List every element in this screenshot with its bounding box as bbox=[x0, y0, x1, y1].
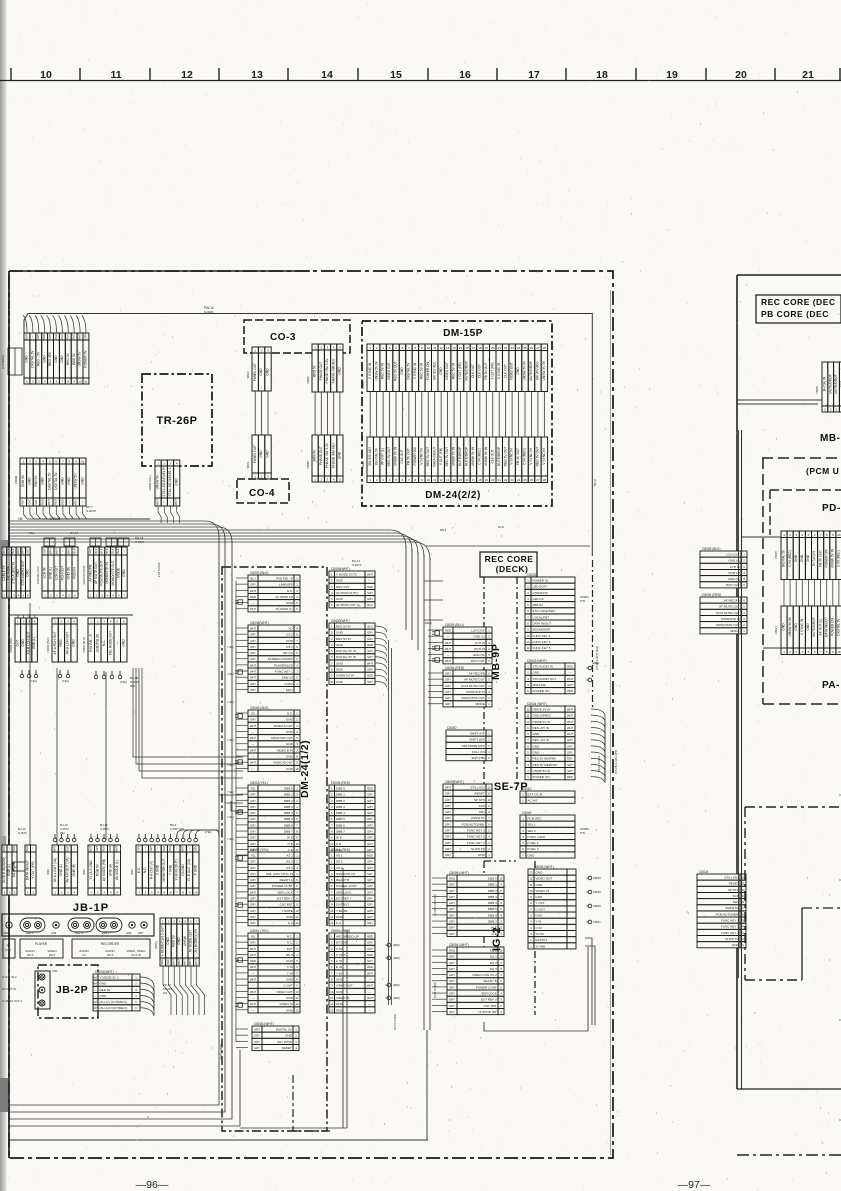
svg-text:POWER ON: POWER ON bbox=[830, 617, 834, 636]
svg-text:(YEL): (YEL) bbox=[227, 837, 234, 841]
wire risers from bus curves down bbox=[405, 546, 407, 630]
svg-text:BLK: BLK bbox=[94, 548, 98, 553]
svg-text:AV MONI 1R: AV MONI 1R bbox=[275, 595, 293, 599]
svg-text:GND: GND bbox=[286, 978, 294, 982]
svg-text:GND: GND bbox=[100, 982, 108, 986]
svg-text:STILL ADJ: STILL ADJ bbox=[724, 875, 739, 879]
svg-text:PHASE OUT: PHASE OUT bbox=[319, 446, 323, 465]
svg-text:GRY: GRY bbox=[250, 583, 256, 587]
svg-text:SEL 2: SEL 2 bbox=[528, 829, 536, 833]
wire riser pair right of column R bbox=[388, 640, 390, 1005]
svg-text:GRY: GRY bbox=[367, 909, 373, 913]
svg-text:GRY: GRY bbox=[254, 1040, 260, 1044]
svg-text:DIGITAL 5V: DIGITAL 5V bbox=[30, 350, 34, 368]
svg-text:RED: RED bbox=[54, 499, 58, 505]
svg-text:(RED): (RED) bbox=[393, 997, 400, 1000]
svg-text:12: 12 bbox=[181, 69, 193, 81]
svg-text:GND: GND bbox=[286, 601, 294, 605]
svg-text:GND: GND bbox=[806, 623, 810, 631]
svg-text:CO-3: CO-3 bbox=[270, 332, 296, 343]
svg-text:RES 5V IN: RES 5V IN bbox=[336, 637, 351, 641]
svg-text:C8001(YEL): C8001(YEL) bbox=[250, 781, 268, 785]
svg-text:REC 5V IN: REC 5V IN bbox=[381, 362, 385, 379]
connector group bottom q5 bbox=[136, 845, 199, 895]
svg-text:12: 12 bbox=[529, 877, 533, 881]
svg-text:28: 28 bbox=[543, 478, 547, 482]
svg-text:GRY: GRY bbox=[250, 633, 256, 637]
svg-text:FT-22 S-2018: FT-22 S-2018 bbox=[220, 1044, 223, 1060]
svg-text:RED: RED bbox=[367, 786, 373, 790]
svg-text:10: 10 bbox=[194, 891, 198, 895]
svg-text:WHT: WHT bbox=[250, 676, 256, 680]
jacks below group A bbox=[20, 674, 24, 678]
svg-text:10: 10 bbox=[78, 380, 82, 384]
frame double line scan artifact bbox=[610, 290, 612, 1155]
svg-text:O VIDEO OUT 2: O VIDEO OUT 2 bbox=[2, 999, 22, 1003]
svg-text:RED: RED bbox=[367, 674, 373, 678]
svg-text:Y MUTE: Y MUTE bbox=[336, 909, 347, 913]
wire stubs risers to MB tables bbox=[424, 580, 443, 582]
svg-text:C8005 (WHT): C8005 (WHT) bbox=[254, 1022, 274, 1026]
svg-text:22: 22 bbox=[504, 346, 508, 350]
svg-text:RED: RED bbox=[6, 548, 10, 554]
svg-text:—: — bbox=[94, 988, 97, 992]
svg-text:S-0576: S-0576 bbox=[100, 827, 109, 831]
svg-text:AF OUT (L): AF OUT (L) bbox=[818, 619, 822, 636]
svg-text:GRY: GRY bbox=[48, 333, 52, 339]
svg-text:11: 11 bbox=[527, 640, 530, 644]
svg-text:V SYNC IN: V SYNC IN bbox=[419, 448, 423, 465]
wire riser feeding table stubs bbox=[235, 581, 237, 1042]
svg-text:#93: #93 bbox=[60, 831, 65, 835]
svg-text:GND: GND bbox=[336, 597, 344, 601]
svg-text:—: — bbox=[252, 972, 255, 975]
svg-text:RED 5V: RED 5V bbox=[100, 988, 112, 992]
svg-text:OUT IN: OUT IN bbox=[131, 953, 140, 957]
svg-text:C8008(WHT): C8008(WHT) bbox=[250, 621, 269, 625]
svg-text:Y OUT: Y OUT bbox=[536, 901, 545, 905]
svg-text:FULL ON: FULL ON bbox=[472, 750, 485, 754]
wires jb1 vertical table down bbox=[163, 966, 171, 1015]
svg-text:MB-: MB- bbox=[820, 433, 840, 444]
svg-text:S-0007 #36: S-0007 #36 bbox=[170, 827, 184, 831]
svg-text:RESET: RESET bbox=[475, 792, 485, 796]
svg-text:(YEL): (YEL) bbox=[227, 815, 234, 819]
svg-text:GRY: GRY bbox=[445, 822, 451, 826]
svg-text:—: — bbox=[32, 847, 35, 850]
panel JB-2P jacks bbox=[35, 971, 50, 1009]
svg-text:GND: GND bbox=[286, 1008, 294, 1012]
svg-text:B+7(A) IN: B+7(A) IN bbox=[812, 551, 816, 566]
svg-text:DIGITAL 5V: DIGITAL 5V bbox=[276, 1027, 293, 1031]
jacks below group C bbox=[94, 675, 98, 679]
board CO-4 outline bbox=[237, 479, 289, 503]
svg-text:GRY: GRY bbox=[254, 1046, 260, 1050]
svg-text:EXT REF Y: EXT REF Y bbox=[277, 897, 293, 901]
svg-text:(L-POWER): (L-POWER) bbox=[1, 355, 5, 369]
svg-text:GRY: GRY bbox=[449, 961, 455, 965]
svg-text:GND: GND bbox=[533, 671, 541, 675]
svg-text:C IN (REC): C IN (REC) bbox=[477, 448, 481, 464]
svg-text:11: 11 bbox=[296, 848, 299, 852]
svg-text:22: 22 bbox=[504, 478, 508, 482]
svg-text:DRIVE 5V IN: DRIVE 5V IN bbox=[533, 707, 551, 711]
svg-text:GRY: GRY bbox=[250, 842, 256, 846]
svg-text:18: 18 bbox=[596, 69, 608, 81]
svg-text:STD AUDIO IN: STD AUDIO IN bbox=[11, 562, 15, 584]
wire forks risers to tables bbox=[219, 785, 243, 795]
svg-text:21: 21 bbox=[498, 346, 502, 350]
svg-text:MONO/STE OUT: MONO/STE OUT bbox=[461, 696, 485, 700]
svg-text:WHT: WHT bbox=[250, 626, 256, 630]
svg-text:RES 5V NEARBY: RES 5V NEARBY bbox=[533, 757, 557, 761]
svg-text:GRY: GRY bbox=[449, 955, 455, 959]
svg-text:J022 P: J022 P bbox=[102, 932, 110, 935]
svg-text:C OUT: C OUT bbox=[336, 953, 346, 957]
svg-text:T GND: T GND bbox=[168, 864, 172, 875]
svg-text:GRY: GRY bbox=[449, 926, 455, 930]
wire bus to frame right bbox=[425, 545, 590, 547]
svg-text:UNSW 5V IN: UNSW 5V IN bbox=[788, 617, 792, 637]
svg-text:GND: GND bbox=[336, 1008, 344, 1012]
wire risers center bottom bbox=[342, 868, 344, 1128]
svg-text:GRY: GRY bbox=[250, 799, 256, 803]
svg-text:16: 16 bbox=[465, 478, 469, 482]
svg-text:GROUND (BRN): GROUND (BRN) bbox=[83, 565, 86, 584]
svg-text:23: 23 bbox=[510, 478, 514, 482]
svg-text:(YEL): (YEL) bbox=[62, 679, 69, 683]
connector group bottom q1 bbox=[2, 845, 17, 895]
svg-text:RESET: RESET bbox=[729, 882, 739, 886]
svg-text:—: — bbox=[144, 847, 147, 850]
svg-text:GRY: GRY bbox=[83, 333, 87, 339]
svg-text:VIDEO B IN: VIDEO B IN bbox=[277, 748, 293, 752]
svg-text:REC CORE (DEC: REC CORE (DEC bbox=[761, 297, 836, 307]
wire bottom bus lines bbox=[10, 535, 219, 1105]
svg-text:PB2 MODE MPX: PB2 MODE MPX bbox=[462, 744, 485, 748]
svg-text:TBC-8: TBC-8 bbox=[593, 479, 597, 487]
svg-text:SW 30V ADJ: SW 30V ADJ bbox=[368, 447, 372, 466]
svg-text:SAW 10: SAW 10 bbox=[282, 676, 293, 680]
bus wires upper band bbox=[8, 521, 219, 537]
svg-text:V SYNC IN: V SYNC IN bbox=[368, 362, 372, 379]
svg-text:GRY: GRY bbox=[95, 845, 99, 851]
svg-text:GND: GND bbox=[286, 767, 294, 771]
svg-text:(RED): (RED) bbox=[393, 944, 400, 947]
svg-text:J021 R: J021 R bbox=[75, 932, 83, 935]
plug boxes above mid groups bbox=[44, 538, 55, 546]
svg-text:(YEL): (YEL) bbox=[227, 700, 234, 704]
svg-text:12: 12 bbox=[526, 646, 530, 650]
svg-text:RED: RED bbox=[567, 775, 573, 779]
svg-text:C8005 (BLK): C8005 (BLK) bbox=[702, 547, 720, 551]
svg-text:Y IN: Y IN bbox=[536, 920, 542, 924]
svg-text:WHT: WHT bbox=[194, 959, 198, 965]
svg-text:WHT: WHT bbox=[183, 959, 187, 965]
svg-text:GRY: GRY bbox=[367, 668, 373, 672]
svg-text:SCK: SCK bbox=[479, 804, 485, 808]
svg-text:GRY: GRY bbox=[449, 889, 455, 893]
svg-text:MUTE/DROP: MUTE/DROP bbox=[834, 374, 838, 394]
svg-text:—: — bbox=[81, 500, 84, 503]
svg-text:KEY DATA: KEY DATA bbox=[277, 1040, 293, 1044]
svg-text:GRY: GRY bbox=[250, 645, 256, 649]
svg-text:SP STD: SP STD bbox=[474, 798, 486, 802]
svg-text:C IN: C IN bbox=[287, 965, 293, 969]
svg-text:REC 5V IN: REC 5V IN bbox=[452, 362, 456, 379]
svg-text:BRN 5V: BRN 5V bbox=[313, 449, 317, 462]
svg-text:W E: W E bbox=[287, 836, 293, 840]
svg-text:MONO/STE OUT: MONO/STE OUT bbox=[716, 623, 740, 627]
svg-text:GRY: GRY bbox=[250, 941, 256, 945]
svg-text:12: 12 bbox=[295, 1002, 299, 1006]
connector group bottom q2 bbox=[25, 845, 36, 895]
plugs right of C8003 bbox=[588, 666, 592, 670]
svg-text:GRY: GRY bbox=[445, 853, 451, 857]
svg-text:C8009(WHT): C8009(WHT) bbox=[445, 780, 464, 784]
svg-text:WHT: WHT bbox=[171, 959, 175, 965]
svg-text:OUT: OUT bbox=[49, 953, 56, 957]
svg-text:GRY: GRY bbox=[445, 798, 451, 802]
svg-text:PHASE /3M 3.3V: PHASE /3M 3.3V bbox=[325, 358, 329, 384]
svg-text:C IN (REC): C IN (REC) bbox=[523, 448, 527, 464]
svg-text:GRY: GRY bbox=[567, 738, 573, 742]
svg-text:GRY: GRY bbox=[445, 841, 451, 845]
svg-text:WHT: WHT bbox=[48, 548, 52, 554]
svg-text:C8001 (YEL): C8001 (YEL) bbox=[250, 929, 268, 933]
svg-text:WHT: WHT bbox=[250, 663, 256, 667]
connector group mid-left 2 (line audio) bbox=[42, 547, 78, 598]
svg-text:BLK: BLK bbox=[116, 548, 120, 553]
svg-text:GRY: GRY bbox=[149, 845, 153, 851]
svg-text:POWER 5V: POWER 5V bbox=[84, 350, 88, 368]
svg-text:EXT OC-M: EXT OC-M bbox=[528, 792, 543, 796]
svg-text:DBB 6: DBB 6 bbox=[488, 913, 497, 917]
svg-text:5.5V COUNTER: 5.5V COUNTER bbox=[533, 609, 556, 613]
svg-text:11: 11 bbox=[296, 996, 299, 1000]
wires group to lower bus bbox=[23, 506, 150, 519]
svg-text:GRY: GRY bbox=[449, 901, 455, 905]
svg-text:DATA IN/OUT: DATA IN/OUT bbox=[25, 860, 29, 880]
svg-text:23: 23 bbox=[510, 346, 514, 350]
svg-text:VIDEO OUT: VIDEO OUT bbox=[336, 984, 353, 988]
svg-text:GRY: GRY bbox=[449, 1004, 455, 1008]
svg-text:POWER ON: POWER ON bbox=[533, 689, 550, 693]
svg-text:AF REC/PB: AF REC/PB bbox=[88, 564, 92, 581]
connector CO-3 stack A bottom bbox=[252, 435, 271, 479]
svg-text:RED: RED bbox=[367, 585, 373, 589]
svg-text:GND: GND bbox=[336, 643, 344, 647]
svg-text:GND: GND bbox=[478, 853, 486, 857]
svg-text:PB 5V OUT: PB 5V OUT bbox=[516, 448, 520, 465]
svg-text:STILL ADJ: STILL ADJ bbox=[470, 785, 485, 789]
svg-text:11: 11 bbox=[330, 996, 333, 1000]
svg-text:DBB 1: DBB 1 bbox=[488, 883, 497, 887]
svg-text:10: 10 bbox=[427, 346, 431, 350]
svg-text:RC 5: RC 5 bbox=[286, 953, 293, 957]
svg-text:—: — bbox=[369, 991, 372, 994]
svg-text:O E: O E bbox=[288, 842, 293, 846]
svg-text:—: — bbox=[447, 636, 450, 639]
connector CO-3 stack A top bbox=[252, 347, 271, 391]
svg-text:PA-: PA- bbox=[822, 680, 840, 691]
svg-text:UNSW 5V IN: UNSW 5V IN bbox=[484, 446, 488, 466]
svg-text:GRY: GRY bbox=[445, 829, 451, 833]
svg-text:GND (L): GND (L) bbox=[32, 637, 36, 649]
svg-text:—: — bbox=[447, 654, 450, 657]
svg-text:20: 20 bbox=[491, 478, 495, 482]
svg-text:(BRN): (BRN) bbox=[154, 941, 158, 948]
svg-text:EXT REF V: EXT REF V bbox=[481, 998, 498, 1002]
svg-text:GRY: GRY bbox=[250, 866, 256, 870]
connector group lower-left A bbox=[15, 618, 37, 662]
svg-text:P EFF LOCK: P EFF LOCK bbox=[528, 835, 546, 839]
svg-text:VIDEO OUT: VIDEO OUT bbox=[445, 362, 449, 380]
svg-text:J021 L: J021 L bbox=[26, 932, 34, 935]
svg-text:—: — bbox=[175, 847, 178, 850]
svg-text:GRY: GRY bbox=[449, 973, 455, 977]
svg-text:GND: GND bbox=[41, 477, 45, 485]
svg-text:(RED): (RED) bbox=[425, 621, 432, 625]
svg-text:DBB 1: DBB 1 bbox=[336, 793, 345, 797]
svg-text:WHT: WHT bbox=[24, 333, 28, 339]
svg-text:GRY: GRY bbox=[250, 793, 256, 797]
svg-text:AF REC/PB: AF REC/PB bbox=[724, 598, 740, 602]
svg-text:GRY: GRY bbox=[367, 959, 373, 963]
svg-text:16: 16 bbox=[459, 69, 471, 81]
svg-text:CNT RST: CNT RST bbox=[280, 903, 293, 907]
svg-text:C IN (REC): C IN (REC) bbox=[837, 550, 841, 566]
svg-text:CLK OUT: CLK OUT bbox=[490, 449, 494, 463]
svg-text:WHT: WHT bbox=[177, 959, 181, 965]
svg-text:GRY: GRY bbox=[449, 883, 455, 887]
svg-text:DIGITAL 5V: DIGITAL 5V bbox=[47, 472, 51, 490]
svg-text:28: 28 bbox=[543, 346, 547, 350]
svg-text:(SY-88 S-0076 SEQ): (SY-88 S-0076 SEQ) bbox=[595, 646, 599, 670]
svg-text:WHT: WHT bbox=[2, 548, 6, 554]
svg-text:R-A OUT (Y): R-A OUT (Y) bbox=[149, 861, 153, 879]
svg-text:MONI/DROP: MONI/DROP bbox=[533, 628, 551, 632]
svg-text:GRY: GRY bbox=[567, 757, 573, 761]
svg-text:C8004 (WHT): C8004 (WHT) bbox=[449, 943, 469, 947]
svg-text:RED: RED bbox=[41, 499, 45, 505]
svg-text:BLU: BLU bbox=[250, 576, 255, 580]
svg-text:GND: GND bbox=[533, 744, 541, 748]
svg-text:AV-A R OUT (1A): AV-A R OUT (1A) bbox=[66, 858, 70, 883]
svg-text:PANEL OUT: PANEL OUT bbox=[253, 363, 257, 381]
svg-text:GND (L): GND (L) bbox=[49, 567, 53, 579]
svg-text:N.C.: N.C. bbox=[287, 589, 293, 593]
connector strip group top-left (power harness) bbox=[24, 333, 89, 384]
svg-text:RED: RED bbox=[250, 959, 256, 963]
svg-text:RED: RED bbox=[367, 965, 373, 969]
svg-text:WHT: WHT bbox=[250, 978, 256, 982]
svg-text:UNSW 5V IN: UNSW 5V IN bbox=[542, 361, 546, 381]
svg-text:WHT: WHT bbox=[367, 996, 373, 1000]
svg-text:DBB 2: DBB 2 bbox=[336, 799, 345, 803]
svg-text:REG→5V: REG→5V bbox=[36, 351, 40, 366]
svg-text:—: — bbox=[252, 756, 255, 759]
svg-text:GRY: GRY bbox=[250, 682, 256, 686]
svg-text:GRY: GRY bbox=[137, 845, 141, 851]
svg-text:12: 12 bbox=[526, 707, 530, 711]
svg-text:V MODE OUT2: V MODE OUT2 bbox=[336, 572, 357, 576]
svg-text:RECORDER: RECORDER bbox=[101, 942, 120, 946]
svg-text:JB-1P: JB-1P bbox=[73, 902, 109, 914]
svg-text:UNSW 5V IN: UNSW 5V IN bbox=[471, 446, 475, 466]
svg-text:DBB 1: DBB 1 bbox=[284, 793, 293, 797]
svg-text:GND: GND bbox=[286, 718, 294, 722]
svg-text:FUNC KEY 6: FUNC KEY 6 bbox=[533, 640, 551, 644]
svg-text:12: 12 bbox=[330, 921, 334, 925]
svg-text:AV MONI AUTO: AV MONI AUTO bbox=[336, 591, 358, 595]
svg-text:AF OUT (L): AF OUT (L) bbox=[381, 448, 385, 465]
svg-text:MONITOR OUT: MONITOR OUT bbox=[162, 858, 166, 881]
svg-text:EQ 2: EQ 2 bbox=[490, 961, 497, 965]
svg-text:GND: GND bbox=[286, 639, 294, 643]
svg-text:21: 21 bbox=[498, 478, 502, 482]
svg-text:RES +5V IN: RES +5V IN bbox=[533, 726, 550, 730]
svg-text:GND (L): GND (L) bbox=[59, 864, 63, 876]
svg-text:UNSW 5V: UNSW 5V bbox=[74, 473, 78, 489]
svg-text:RED: RED bbox=[367, 853, 373, 857]
svg-text:GRY: GRY bbox=[367, 836, 373, 840]
svg-text:GND: GND bbox=[336, 631, 344, 635]
svg-text:(YEL): (YEL) bbox=[227, 763, 234, 767]
svg-text:GND: GND bbox=[100, 994, 108, 998]
svg-text:10: 10 bbox=[529, 889, 533, 893]
svg-text:RED: RED bbox=[60, 499, 64, 505]
svg-text:LCH OUT: LCH OUT bbox=[471, 628, 485, 632]
svg-text:GND: GND bbox=[121, 639, 125, 647]
svg-text:10: 10 bbox=[499, 876, 503, 880]
svg-text:GRY: GRY bbox=[254, 1034, 260, 1038]
svg-text:REC 5V IN: REC 5V IN bbox=[419, 362, 423, 379]
svg-text:GND (R): GND (R) bbox=[72, 864, 76, 877]
board JB-2P outline bbox=[38, 965, 98, 1018]
svg-text:(YEL): (YEL) bbox=[227, 738, 234, 742]
svg-text:J051: J051 bbox=[52, 970, 58, 973]
svg-text:REG 5V: REG 5V bbox=[66, 352, 70, 365]
svg-text:OUT: OUT bbox=[15, 640, 19, 647]
svg-text:MIC/LINE: MIC/LINE bbox=[533, 683, 546, 687]
svg-text:J856: J856 bbox=[3, 932, 9, 935]
svg-text:GRY: GRY bbox=[445, 847, 451, 851]
svg-text:PB1 MODE OUT: PB1 MODE OUT bbox=[108, 631, 112, 656]
svg-text:20: 20 bbox=[735, 69, 747, 81]
svg-text:10: 10 bbox=[295, 767, 299, 771]
svg-text:13: 13 bbox=[251, 69, 263, 81]
svg-text:UNSW: UNSW bbox=[183, 935, 187, 946]
svg-text:P/N: P/N bbox=[580, 831, 585, 835]
svg-text:—: — bbox=[169, 500, 172, 503]
svg-text:GRY: GRY bbox=[250, 860, 256, 864]
svg-text:—: — bbox=[68, 500, 71, 503]
svg-text:B+7(A) IN: B+7(A) IN bbox=[823, 376, 827, 391]
svg-text:READY B: READY B bbox=[483, 979, 496, 983]
svg-text:MODE: MODE bbox=[116, 567, 120, 578]
plugs left of C8005(BLU) bbox=[428, 629, 443, 631]
svg-text:#98: #98 bbox=[130, 684, 135, 688]
svg-text:27: 27 bbox=[536, 346, 540, 350]
svg-text:W501: W501 bbox=[246, 461, 250, 468]
svg-text:GRY: GRY bbox=[445, 678, 451, 682]
svg-text:Y1-E OUT (1M): Y1-E OUT (1M) bbox=[187, 859, 191, 882]
svg-text:RED: RED bbox=[567, 664, 573, 668]
svg-text:GRY: GRY bbox=[449, 1010, 455, 1014]
svg-text:GRY: GRY bbox=[367, 941, 373, 945]
svg-text:GND (5PMG): GND (5PMG) bbox=[533, 714, 551, 718]
